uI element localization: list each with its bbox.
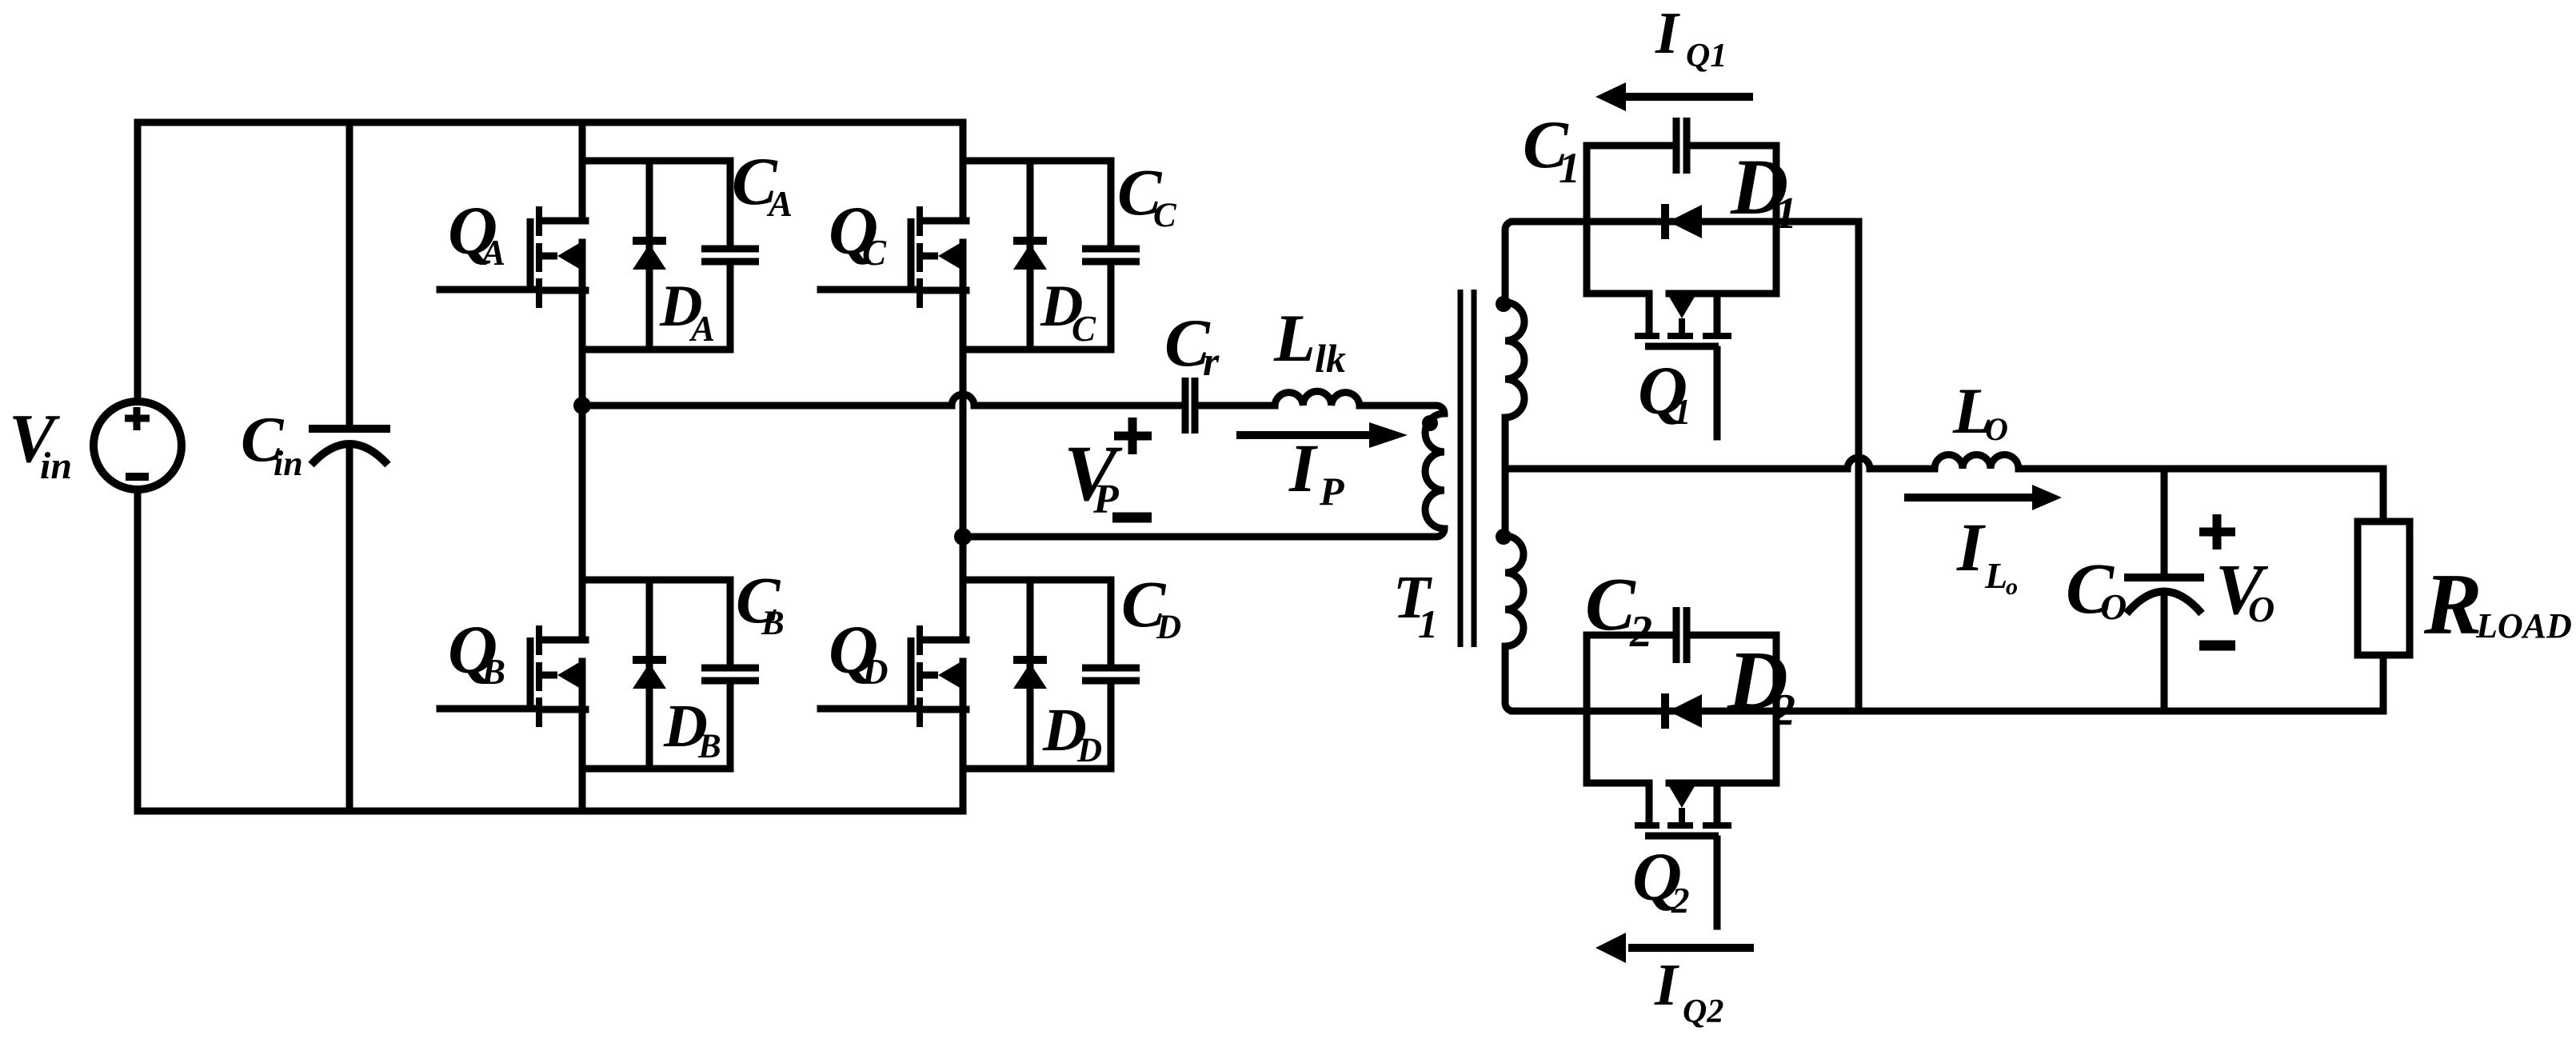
svg-text:O: O xyxy=(1985,411,2008,447)
label Q2 xyxy=(1632,838,1690,921)
svg-text:lk: lk xyxy=(1315,336,1346,381)
wire QA cell top xyxy=(582,158,730,165)
svg-text:I: I xyxy=(1288,430,1318,506)
wire C2 box right xyxy=(1690,635,1776,783)
label DB xyxy=(663,693,721,765)
wire Lo to RLOAD top xyxy=(2019,469,2383,521)
label QD xyxy=(829,611,889,692)
transformer T1 core xyxy=(1460,290,1474,647)
label D2 xyxy=(1727,633,1795,735)
svg-text:in: in xyxy=(274,444,303,483)
wire center tap xyxy=(1502,418,1509,533)
wire C1 box right xyxy=(1690,146,1776,294)
label Vin xyxy=(9,399,72,487)
svg-text:P: P xyxy=(1319,469,1344,514)
capacitor Co xyxy=(2124,469,2204,711)
wire QD cell bottom xyxy=(963,765,1111,773)
wire secondary bottom to D2 line xyxy=(1505,646,1513,711)
wire C2 box left xyxy=(1587,635,1673,783)
svg-text:A: A xyxy=(479,233,505,273)
capacitor Cr xyxy=(1185,378,1195,434)
transformer secondary top winding xyxy=(1505,302,1524,418)
label Co xyxy=(2066,549,2127,629)
wire D2 / output bottom line xyxy=(1513,708,2383,715)
wire output line with hop over bus xyxy=(1505,458,1935,469)
label DD xyxy=(1042,697,1102,769)
label VP xyxy=(1064,429,1123,522)
svg-text:I: I xyxy=(1956,509,1986,585)
transformer T1 primary winding xyxy=(1425,414,1444,529)
wire Cin top xyxy=(346,122,353,429)
label CC xyxy=(1117,155,1177,234)
resistor RLOAD xyxy=(2358,521,2410,711)
svg-text:L: L xyxy=(1984,555,2007,596)
Vo plus sign xyxy=(2199,514,2235,549)
capacitor CD xyxy=(1082,580,1140,769)
label Cr xyxy=(1164,306,1220,385)
label QB xyxy=(448,611,505,692)
wire Vin top xyxy=(134,122,142,402)
capacitor CB xyxy=(701,580,759,769)
diode DA xyxy=(633,161,666,350)
svg-text:O: O xyxy=(2248,589,2274,629)
svg-text:r: r xyxy=(1203,339,1220,385)
wire top rail xyxy=(138,119,963,126)
diode DB xyxy=(633,580,666,769)
wire VP- line xyxy=(963,529,1444,537)
wire Cin bottom xyxy=(346,446,353,811)
label T1 xyxy=(1393,564,1438,646)
transformer primary phase dot xyxy=(1422,415,1438,431)
capacitor Cin xyxy=(309,429,390,465)
arrow IQ2 xyxy=(1596,933,1754,963)
secondary top phase dot xyxy=(1496,296,1512,312)
svg-text:Q2: Q2 xyxy=(1683,993,1723,1030)
arrow ILo xyxy=(1904,485,2062,510)
wire right leg (QC/QD) lower segment xyxy=(960,661,967,811)
svg-text:B: B xyxy=(697,728,721,765)
wire Cr to Llk xyxy=(1201,402,1275,410)
svg-text:1: 1 xyxy=(1775,189,1797,238)
wire right leg (QC/QD) upper segment xyxy=(960,122,967,221)
wire QC cell top xyxy=(963,158,1111,165)
VP minus sign xyxy=(1112,513,1152,523)
svg-text:L: L xyxy=(1273,301,1316,376)
label D1 xyxy=(1730,142,1797,238)
wire secondary top to D1 line xyxy=(1505,222,1513,302)
wire QA cell bottom xyxy=(582,346,730,354)
label CB xyxy=(736,563,785,642)
svg-text:Q1: Q1 xyxy=(1686,38,1727,74)
svg-text:C: C xyxy=(1153,197,1177,234)
label DC xyxy=(1040,274,1096,349)
wire QB cell top xyxy=(582,577,730,584)
label QC xyxy=(829,192,887,273)
wire QC cell bottom xyxy=(963,346,1111,354)
transistor Q2 xyxy=(1587,783,1776,926)
wire left leg (QA/QB) upper segment xyxy=(579,122,586,221)
svg-text:B: B xyxy=(481,652,505,692)
svg-text:I: I xyxy=(1655,1,1680,66)
svg-text:A: A xyxy=(689,309,715,349)
transformer secondary bottom winding xyxy=(1505,536,1524,646)
wire D1 line xyxy=(1513,218,1859,226)
svg-text:1: 1 xyxy=(1559,144,1580,192)
VP plus sign xyxy=(1114,418,1152,454)
wire QD cell top xyxy=(963,577,1111,584)
svg-text:D: D xyxy=(1076,732,1102,769)
svg-text:LOAD: LOAD xyxy=(2475,606,2572,645)
capacitor C1 xyxy=(1676,118,1687,174)
inductor Lo xyxy=(1935,455,2019,470)
diode DD xyxy=(1013,580,1047,769)
arrow IQ1 xyxy=(1596,82,1753,111)
label ILo xyxy=(1956,509,2018,600)
svg-text:in: in xyxy=(40,445,72,487)
label Lo xyxy=(1952,374,2008,447)
diode DC xyxy=(1013,161,1047,350)
transistor QD xyxy=(821,625,966,727)
capacitor C2 xyxy=(1676,607,1687,663)
label Q1 xyxy=(1638,352,1691,432)
wire C1 box left xyxy=(1587,146,1673,294)
wire Llk to transformer xyxy=(1360,406,1444,414)
label Llk xyxy=(1273,301,1346,381)
node A/B midpoint junction xyxy=(573,397,591,414)
secondary bottom phase dot xyxy=(1496,529,1512,545)
Vo minus sign xyxy=(2199,641,2235,651)
transistor QC xyxy=(821,206,966,308)
svg-text:D: D xyxy=(1156,609,1181,646)
svg-text:A: A xyxy=(766,184,793,224)
transistor QB xyxy=(440,625,585,727)
label IQ1 xyxy=(1655,1,1727,74)
arrow IP xyxy=(1236,422,1408,448)
label IQ2 xyxy=(1654,953,1723,1030)
label C1 xyxy=(1523,107,1580,192)
svg-text:R: R xyxy=(2423,556,2482,653)
diode D2 xyxy=(1665,693,1702,729)
wire rectifier bus xyxy=(1855,222,1863,711)
label DA xyxy=(659,274,715,349)
label RLOAD xyxy=(2423,556,2572,653)
svg-text:1: 1 xyxy=(1418,601,1438,646)
label Vo xyxy=(2215,550,2274,629)
svg-text:I: I xyxy=(1654,953,1679,1018)
label C2 xyxy=(1585,563,1652,657)
wire right leg (QC/QD) middle segment xyxy=(960,242,967,640)
svg-text:B: B xyxy=(761,605,785,642)
capacitor CA xyxy=(701,161,759,350)
capacitor CC xyxy=(1082,161,1140,350)
svg-text:2: 2 xyxy=(1671,881,1690,921)
wire left leg (QA/QB) lower segment xyxy=(579,661,586,811)
diode D1 xyxy=(1665,204,1702,239)
label CA xyxy=(732,144,793,224)
node C/D midpoint junction xyxy=(954,528,972,545)
transistor QA xyxy=(440,206,585,308)
inductor Llk xyxy=(1275,391,1360,406)
svg-text:2: 2 xyxy=(1772,685,1795,735)
label IP xyxy=(1288,430,1344,514)
wire Vin bottom xyxy=(134,490,142,811)
transistor Q1 xyxy=(1587,294,1776,437)
label CD xyxy=(1121,567,1181,646)
svg-text:o: o xyxy=(2006,573,2018,600)
svg-text:C: C xyxy=(1072,309,1096,349)
svg-text:O: O xyxy=(2100,586,2127,627)
svg-text:1: 1 xyxy=(1673,392,1691,432)
label QA xyxy=(448,192,505,273)
wire left leg (QA/QB) middle segment xyxy=(579,242,586,640)
svg-text:C: C xyxy=(862,233,887,273)
svg-text:D: D xyxy=(861,652,889,692)
wire VP+ line with hop over right leg xyxy=(582,394,1179,406)
wire QB cell bottom xyxy=(582,765,730,773)
wire bottom rail xyxy=(138,808,963,815)
label Cin xyxy=(241,405,303,483)
voltage source Vin xyxy=(94,402,182,490)
